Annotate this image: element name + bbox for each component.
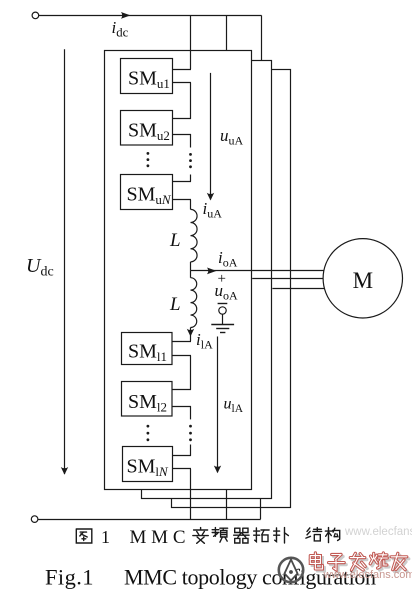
wire (SM_uN bottom stub) — [173, 200, 191, 210]
caption figure number 图1 (Chinese) — [76, 527, 339, 548]
phase leg A (front rectangle) — [105, 51, 252, 490]
submodule SM_u1 — [121, 59, 173, 94]
ellipsis dots (upper arm chain) — [189, 153, 192, 168]
svg-text:www.elecfans.com: www.elecfans.com — [323, 569, 412, 581]
wire (SM_l2 bottom stub) — [172, 406, 191, 419]
phase leg B (middle rectangle) — [142, 61, 272, 499]
wire (SM_uN top stub) — [173, 181, 191, 183]
wire (SM_u2 bottom stub) — [173, 134, 191, 147]
wire (SM_u2 top stub) — [173, 118, 191, 120]
svg-text:Fig.1: Fig.1 — [45, 565, 94, 590]
watermark 电子发烧友 (red outline) — [310, 553, 409, 572]
svg-text:1: 1 — [101, 527, 110, 547]
node A (phase A output) — [191, 270, 324, 272]
submodule SM_l1 — [122, 333, 173, 365]
wire (phase C output) — [272, 288, 325, 290]
label + (u_oA polarity) — [218, 271, 226, 287]
svg-text:L: L — [169, 294, 181, 315]
ellipsis dots (lower arm chain) — [189, 425, 192, 441]
wire (phase B output) — [252, 278, 324, 280]
wire (upper inductor to node A) — [190, 262, 192, 271]
svg-text:M: M — [353, 268, 373, 293]
wire (SM_u1 top stub) — [173, 69, 191, 71]
svg-text:Udc: Udc — [26, 255, 54, 280]
motor M — [323, 239, 402, 318]
svg-text:L: L — [169, 230, 181, 251]
wire (bus drop to leg A top) — [226, 15, 228, 50]
wire (chain to SM_uN) — [190, 175, 192, 182]
wire (bus riser from leg B bottom) — [260, 498, 262, 519]
terminal (DC+ input, top left) — [32, 12, 39, 19]
wire (SM_l1 top stub) — [172, 341, 191, 343]
wire (top DC bus) — [39, 15, 262, 17]
voltage arrow u_uA — [207, 73, 214, 201]
label i_oA — [218, 248, 238, 270]
submodule SM_l2 — [122, 382, 173, 417]
watermark logo (pen nib in circle) — [279, 558, 303, 582]
phase leg C (rear rectangle) — [172, 70, 291, 508]
svg-text:idc: idc — [112, 18, 129, 40]
submodule SM_lN — [123, 447, 173, 482]
label i_uA — [203, 199, 223, 221]
wire (node A to lower inductor) — [190, 271, 192, 278]
current arrow i_dc — [121, 12, 131, 19]
ellipsis dots (upper arm, under boxes) — [147, 152, 150, 167]
inductor L (lower arm) — [191, 278, 197, 328]
wire (SM_l1 bottom stub) — [172, 356, 191, 390]
wire (chain to SM_lN) — [190, 445, 192, 456]
voltage arrow u_lA — [214, 337, 221, 474]
label u_uA — [220, 126, 244, 148]
label - (u_oA polarity) — [218, 303, 228, 305]
label L (lower) — [169, 294, 181, 315]
current arrow i_oA — [207, 268, 217, 275]
wire (SM_l2 top stub) — [172, 389, 191, 391]
ground (neutral reference) — [211, 307, 234, 333]
wire (top bus to SM_u1) — [190, 15, 192, 69]
current arrow i_lA — [187, 329, 194, 337]
terminal (DC- input, bottom left) — [31, 516, 38, 523]
submodule SM_u2 — [121, 111, 173, 146]
wire (bus drop to leg B top) — [261, 15, 263, 60]
label i_dc — [112, 18, 129, 40]
label L (upper) — [169, 230, 181, 251]
wire (bus drop to bottom of leg A) — [226, 489, 228, 519]
watermark url (gray) — [344, 526, 412, 538]
svg-text:www.elecfans.com: www.elecfans.com — [344, 526, 412, 538]
wire (SM_lN bottom stub to bottom bus) — [173, 469, 191, 520]
ellipsis dots (lower arm, under boxes) — [147, 425, 150, 441]
submodule SM_uN — [121, 175, 173, 210]
label U_dc — [26, 255, 54, 280]
wire (SM_lN top stub) — [173, 455, 191, 457]
label u_oA — [215, 281, 239, 303]
wire (bottom DC bus) — [38, 519, 261, 521]
voltage arrow U_dc — [61, 49, 68, 475]
caption Fig.1 MMC topology configuration — [45, 565, 376, 590]
wire (SM_u1 bottom stub) — [173, 83, 191, 119]
inductor L (upper arm) — [191, 209, 198, 261]
label u_lA — [224, 396, 244, 416]
wire (lower inductor to SM_l1) — [190, 328, 192, 342]
watermark url small (red) — [323, 569, 412, 581]
label i_lA — [196, 330, 213, 352]
svg-text:MMC: MMC — [130, 527, 186, 548]
